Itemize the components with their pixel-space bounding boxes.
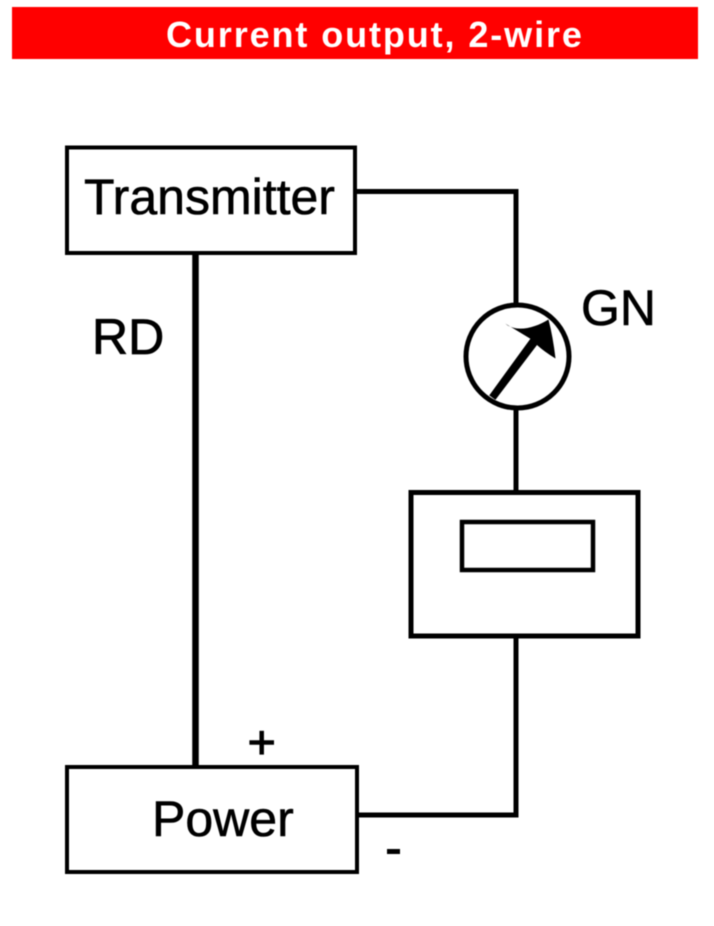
meter circle <box>466 305 569 408</box>
display box <box>411 493 638 637</box>
svg-text:RD: RD <box>92 309 164 365</box>
meter needle <box>489 320 555 400</box>
box Transmitter <box>67 148 355 254</box>
title banner <box>12 7 698 59</box>
svg-text:Power: Power <box>152 791 294 847</box>
svg-text:Transmitter: Transmitter <box>84 169 335 225</box>
wire: meter bottom to display box <box>514 400 519 495</box>
box Power <box>67 767 357 872</box>
minus sign <box>387 849 400 854</box>
wire RD: transmitter bottom to power top <box>192 253 199 767</box>
wire: transmitter right to meter <box>355 192 516 311</box>
svg-text:GN: GN <box>581 280 656 336</box>
svg-text:Current output, 2-wire: Current output, 2-wire <box>166 14 584 55</box>
wire: display bottom to power right <box>357 636 516 815</box>
display inner rect <box>462 522 593 570</box>
plus sign <box>249 740 274 745</box>
